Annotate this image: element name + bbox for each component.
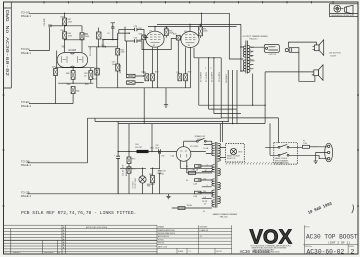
svg-text:789-102: 789-102 (220, 217, 229, 219)
svg-text:RED: RED (238, 152, 243, 154)
svg-text:COM: COM (251, 60, 256, 62)
svg-text:R30: R30 (165, 27, 168, 29)
svg-text:C34: C34 (171, 156, 174, 158)
svg-text:R69: R69 (61, 30, 64, 32)
svg-text:RE-ISSUE: RE-ISSUE (44, 252, 54, 254)
svg-text:C30: C30 (141, 71, 144, 73)
svg-text:1:1: 1:1 (189, 251, 191, 253)
svg-text:PAGE 1: PAGE 1 (21, 51, 31, 55)
svg-text:ISSUE 2: ISSUE 2 (13, 252, 22, 254)
svg-text:R68: R68 (67, 84, 70, 86)
svg-text:PAGE 1: PAGE 1 (21, 194, 31, 198)
svg-text:VOX: VOX (250, 225, 293, 248)
svg-text:F3: F3 (186, 166, 188, 168)
svg-text:R31: R31 (199, 25, 202, 27)
svg-text:C34: C34 (162, 171, 165, 173)
svg-text:AC30-60-02: AC30-60-02 (307, 248, 345, 255)
svg-text:APPROVED FOR ISSUE: APPROVED FOR ISSUE (86, 226, 108, 229)
svg-text:2: 2 (211, 68, 212, 70)
svg-text:V9 GZ34: V9 GZ34 (190, 146, 199, 148)
svg-text:AMBER: AMBER (147, 183, 155, 186)
svg-text:PILOT LIGHT: PILOT LIGHT (135, 178, 137, 188)
svg-text:LP2 RED: LP2 RED (133, 181, 135, 189)
svg-text:C31: C31 (176, 72, 179, 74)
svg-text:C29: C29 (134, 37, 137, 39)
svg-text:STAND BY: STAND BY (195, 135, 206, 138)
svg-text:MAINS TRANSFORMER: MAINS TRANSFORMER (213, 213, 238, 216)
svg-text:OUTPUT TRANSFORMER: OUTPUT TRANSFORMER (243, 35, 269, 38)
svg-text:100R: 100R (203, 31, 208, 33)
svg-text:SELECTOR: SELECTOR (227, 158, 236, 160)
svg-text:(SHT 2 OF 2): (SHT 2 OF 2) (328, 240, 350, 244)
svg-text:470K: 470K (121, 52, 126, 54)
svg-text:TO-2A: TO-2A (203, 147, 209, 150)
svg-text:TITLE: TITLE (305, 227, 311, 229)
svg-text:C32: C32 (161, 174, 164, 176)
svg-text:C26 470P: C26 470P (44, 17, 46, 26)
svg-text:PAGE 1: PAGE 1 (21, 104, 31, 108)
svg-text:R25: R25 (101, 45, 104, 47)
svg-text:R75: R75 (132, 168, 135, 170)
svg-text:100K: 100K (68, 35, 73, 37)
svg-text:R29: R29 (173, 34, 176, 36)
svg-text:MOD No: MOD No (158, 243, 164, 245)
svg-text:R70: R70 (85, 84, 88, 86)
svg-text:ECC83: ECC83 (69, 50, 77, 52)
svg-text:2: 2 (350, 249, 354, 257)
svg-text:TB-2A: TB-2A (187, 204, 193, 207)
svg-text:PAGE 1: PAGE 1 (21, 14, 31, 18)
svg-text:450V HT+: 450V HT+ (126, 167, 128, 176)
svg-text:TO V1 HTRS: TO V1 HTRS (201, 71, 203, 82)
svg-text:R66: R66 (76, 90, 79, 92)
svg-text:TO V2 HTRS: TO V2 HTRS (206, 71, 208, 82)
svg-text:100K: 100K (85, 36, 90, 38)
svg-text:AC30 REISSUE: AC30 REISSUE (240, 251, 271, 255)
svg-text:NOT PERMITTED): NOT PERMITTED) (275, 163, 289, 165)
svg-text:PCB SILK REF R72,74,76,78 - LI: PCB SILK REF R72,74,76,78 - LINKS FITTED… (21, 210, 136, 216)
svg-text:G12M: G12M (330, 56, 336, 58)
svg-text:T3.2A: T3.2A (193, 169, 199, 172)
svg-text:PAGE 1: PAGE 1 (21, 163, 31, 167)
svg-text:2R-2R: 2R-2R (202, 201, 208, 203)
svg-text:SW1: SW1 (197, 139, 203, 141)
svg-text:R23: R23 (52, 67, 55, 69)
svg-text:FEEDBACK: FEEDBACK (225, 73, 228, 83)
svg-text:C28: C28 (134, 26, 137, 28)
svg-text:R32: R32 (155, 71, 158, 73)
svg-text:R68: R68 (66, 73, 69, 75)
svg-text:CHECKED: CHECKED (200, 227, 209, 229)
svg-text:R28: R28 (139, 33, 142, 35)
svg-text:ECN No: ECN No (158, 239, 164, 241)
svg-text:F4: F4 (186, 180, 188, 182)
svg-text:10-5-93: 10-5-93 (216, 251, 222, 253)
svg-text:TO V3 HTRS: TO V3 HTRS (212, 71, 214, 82)
svg-text:R67: R67 (61, 16, 64, 18)
svg-text:R24: R24 (93, 79, 96, 81)
svg-text:CELESTION: CELESTION (329, 53, 341, 55)
svg-text:C31 47+47uF: C31 47+47uF (123, 164, 125, 176)
svg-text:220K: 220K (68, 21, 73, 23)
svg-text:FL: FL (203, 211, 205, 213)
svg-text:TO V4 HTRS: TO V4 HTRS (219, 71, 221, 82)
svg-text:250-767: 250-767 (135, 147, 142, 149)
svg-text:R33: R33 (188, 71, 191, 73)
svg-text:ISSUE: ISSUE (349, 246, 355, 248)
svg-text:POL 100N: POL 100N (90, 47, 92, 56)
svg-text:DWG No AC30-60-02: DWG No AC30-60-02 (4, 10, 9, 77)
svg-text:OUTPUT: OUTPUT (268, 54, 277, 56)
svg-text:R34 220K: R34 220K (120, 64, 122, 73)
svg-text:J.B: J.B (200, 236, 202, 238)
svg-text:R80: R80 (149, 174, 152, 176)
svg-text:THIRD ANGLE PROJECTION: THIRD ANGLE PROJECTION (331, 14, 354, 17)
svg-text:1: 1 (205, 68, 206, 70)
svg-text:TPA-4413: TPA-4413 (249, 38, 257, 41)
svg-text:R73: R73 (132, 159, 135, 161)
